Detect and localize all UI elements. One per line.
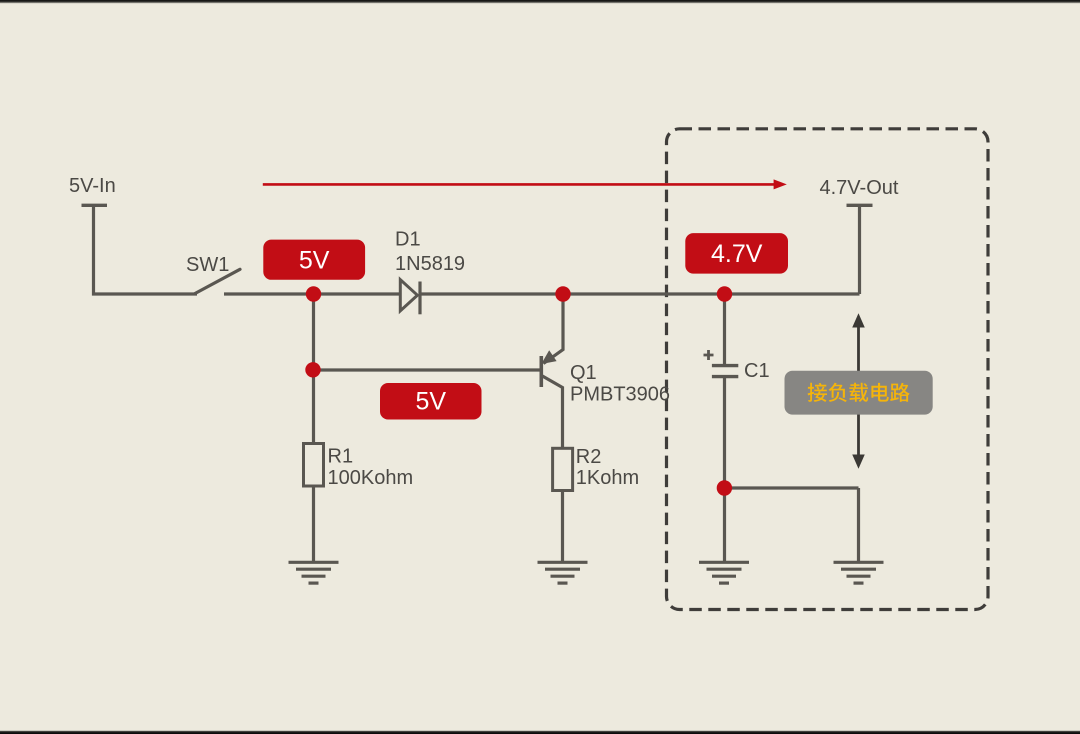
base bar: [539, 356, 543, 387]
svg-text:D1: D1: [395, 228, 421, 250]
badge 5V (base): [380, 383, 482, 420]
load badge: [785, 371, 933, 415]
wire C1 to ground: [723, 488, 726, 562]
C1 plus sign: [704, 350, 714, 360]
top black bar: [0, 0, 1080, 4]
wire load right vertical: [857, 488, 860, 562]
dashed load-section box: [667, 129, 989, 610]
ground (load): [834, 562, 884, 583]
wire R1 branch vertical: [312, 294, 315, 444]
svg-text:100Kohm: 100Kohm: [328, 467, 414, 489]
red power-flow arrow: [263, 183, 775, 186]
resistor R2: [553, 448, 573, 490]
capacitor C1: [723, 294, 726, 366]
wire load bottom horizontal: [725, 486, 859, 489]
svg-text:R2: R2: [576, 446, 602, 468]
resistor R1: [304, 444, 324, 487]
badge 5V (top): [263, 240, 365, 280]
wire diode to output corner: [420, 292, 860, 295]
emitter: [542, 376, 563, 449]
svg-text:1N5819: 1N5819: [395, 253, 465, 275]
wire output vertical: [858, 205, 861, 294]
collector wire: [544, 294, 564, 364]
svg-text:R1: R1: [328, 445, 354, 467]
svg-text:5V-In: 5V-In: [69, 175, 116, 197]
svg-text:4.7V: 4.7V: [711, 240, 763, 268]
wire R1 to ground: [312, 486, 315, 562]
load badge text 接负载电路: [808, 383, 910, 402]
ground (C1): [699, 562, 749, 583]
wire R2 to ground: [561, 491, 564, 563]
input terminal: [82, 204, 108, 207]
svg-text:PMBT3906: PMBT3906: [570, 384, 670, 406]
svg-text:5V: 5V: [416, 388, 447, 416]
svg-text:4.7V-Out: 4.7V-Out: [820, 177, 899, 199]
ground (R2): [538, 562, 588, 583]
diode D1: [400, 280, 417, 311]
Q1 arrow head (points to base bar): [543, 351, 556, 363]
badge 4.7V: [685, 233, 788, 274]
load double arrow: [853, 315, 864, 468]
junction dot (base/R1): [305, 362, 320, 377]
ground (R1): [289, 562, 339, 583]
svg-text:C1: C1: [744, 360, 770, 382]
wire base from R1 branch to Q1: [314, 368, 541, 371]
svg-text:5V: 5V: [299, 247, 330, 275]
junction dot (switch/R1): [306, 286, 321, 301]
svg-text:1Kohm: 1Kohm: [576, 467, 639, 489]
bottom black bar: [0, 730, 1080, 734]
junction dot (C1 top): [717, 286, 732, 301]
wire switch to diode: [224, 292, 400, 295]
transistor Q1: [541, 294, 563, 448]
output terminal: [847, 204, 873, 207]
switch SW1 lever: [195, 269, 240, 293]
svg-text:SW1: SW1: [186, 254, 229, 276]
svg-text:Q1: Q1: [570, 362, 597, 384]
junction dot (C1 bottom): [717, 480, 732, 495]
junction dot (Q1 collector): [555, 286, 570, 301]
wire input vertical + horizontal to switch: [94, 205, 198, 294]
